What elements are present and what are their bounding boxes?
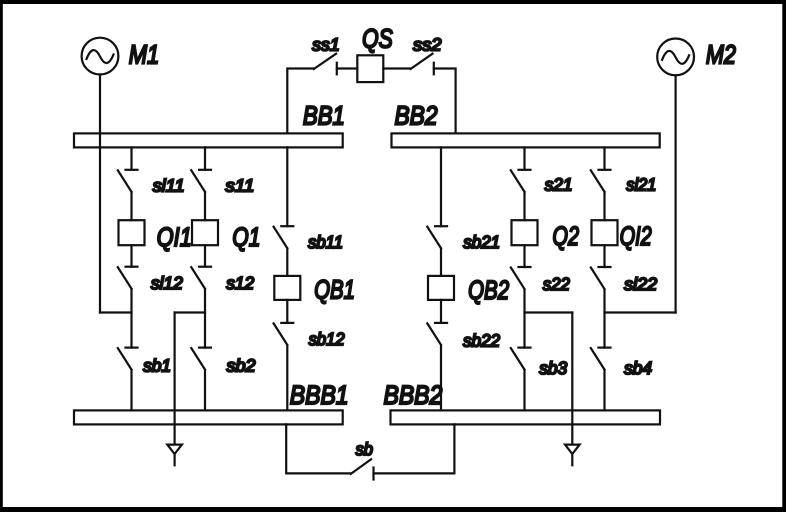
svg-text:sb3: sb3 bbox=[539, 358, 567, 378]
svg-text:sb: sb bbox=[356, 439, 374, 459]
switch si11 bbox=[118, 170, 138, 192]
busbar BBB2 bbox=[391, 410, 661, 424]
wire sb12 to BBB1 bbox=[286, 345, 288, 410]
svg-text:si21: si21 bbox=[626, 175, 656, 195]
switch sb21 bbox=[427, 226, 447, 248]
breaker Q1 bbox=[192, 220, 218, 245]
breaker QB2 bbox=[428, 276, 454, 300]
wire QB2 to sb22 bbox=[440, 300, 442, 323]
busbar BB1 bbox=[74, 133, 343, 147]
wire si11 to QI1 bbox=[130, 192, 132, 220]
wire sb21 to QB2 bbox=[440, 249, 442, 276]
switch sb3 bbox=[511, 348, 531, 370]
breaker QI2 bbox=[592, 220, 618, 245]
svg-text:QI1: QI1 bbox=[157, 222, 192, 252]
wire ss2 right drop bbox=[434, 69, 456, 134]
svg-text:sb1: sb1 bbox=[143, 356, 171, 376]
wire BB1 tap col si11 bbox=[130, 147, 132, 169]
wire s21 to Q2 bbox=[523, 192, 525, 220]
switch sb11 bbox=[274, 226, 294, 248]
svg-text:ss1: ss1 bbox=[312, 35, 340, 55]
switch sb bbox=[351, 459, 374, 479]
busbar BBB1 bbox=[74, 410, 343, 424]
breaker QI1 bbox=[119, 220, 145, 245]
switch s12 bbox=[191, 267, 211, 289]
switch s21 bbox=[511, 170, 531, 192]
breaker Q2 bbox=[512, 220, 538, 245]
breaker QB1 bbox=[274, 276, 300, 300]
switch s22 bbox=[511, 267, 531, 289]
switch ss1 bbox=[314, 54, 358, 75]
svg-text:sb12: sb12 bbox=[309, 329, 345, 349]
svg-text:si12: si12 bbox=[151, 273, 183, 293]
ground left bbox=[167, 445, 182, 466]
wire QI1 to si12 bbox=[130, 245, 132, 267]
ground right bbox=[565, 445, 580, 466]
wire M1 down bbox=[99, 75, 101, 313]
svg-text:s21: s21 bbox=[545, 175, 573, 195]
switch ss2 bbox=[383, 54, 434, 75]
switch sb1 bbox=[118, 348, 138, 370]
wire si12 to sb1 bbox=[130, 289, 132, 347]
wire s11 to Q1 bbox=[204, 192, 206, 220]
wire M1 join bbox=[100, 311, 132, 313]
svg-text:QS: QS bbox=[362, 24, 393, 54]
svg-text:QB2: QB2 bbox=[468, 275, 509, 305]
generator M2 bbox=[657, 39, 694, 76]
wire Q2 to s22 bbox=[523, 245, 525, 267]
wire earth-right join bbox=[525, 311, 573, 313]
wire Q1 to s12 bbox=[204, 245, 206, 267]
svg-text:s22: s22 bbox=[543, 274, 570, 294]
wire earth-left down bbox=[174, 313, 176, 444]
svg-text:BB1: BB1 bbox=[303, 100, 345, 130]
svg-text:BB2: BB2 bbox=[395, 100, 438, 130]
switch sb12 bbox=[274, 323, 294, 345]
svg-text:M1: M1 bbox=[129, 40, 160, 70]
wire QI2 to si22 bbox=[603, 245, 605, 267]
wire sb jumper right bbox=[374, 424, 455, 473]
svg-text:sb2: sb2 bbox=[227, 356, 256, 376]
wire BB2 tap col sb21 bbox=[440, 147, 442, 226]
wire s22 to sb3 bbox=[523, 290, 525, 348]
switch si21 bbox=[591, 170, 611, 192]
wire QB1 to sb12 bbox=[286, 300, 288, 323]
busbar BB2 bbox=[392, 133, 660, 147]
wire BB1 tap col sb11 bbox=[286, 147, 288, 226]
svg-text:QB1: QB1 bbox=[314, 275, 355, 305]
wire M2 join bbox=[605, 311, 676, 313]
wire ss1 left drop bbox=[287, 69, 313, 134]
wire earth-right down bbox=[571, 313, 573, 444]
svg-text:ss2: ss2 bbox=[413, 35, 442, 55]
wire BB1 tap col s11 bbox=[204, 147, 206, 169]
generator M1 bbox=[82, 38, 119, 75]
wire sb jumper left bbox=[286, 424, 351, 473]
breaker QS bbox=[357, 55, 383, 82]
svg-text:Q1: Q1 bbox=[232, 222, 260, 252]
switch sb4 bbox=[591, 348, 611, 370]
svg-text:BBB2: BBB2 bbox=[384, 380, 443, 410]
svg-text:s11: s11 bbox=[225, 176, 254, 196]
wire sb11 to QB1 bbox=[286, 249, 288, 276]
svg-text:sb4: sb4 bbox=[624, 358, 652, 378]
switch sb22 bbox=[427, 323, 447, 345]
svg-text:s12: s12 bbox=[226, 273, 254, 293]
svg-text:sb22: sb22 bbox=[463, 331, 500, 351]
wire sb2 to BBB1 bbox=[204, 370, 206, 410]
wire M2 down bbox=[674, 75, 676, 312]
wire BB2 tap col si21 bbox=[603, 147, 605, 169]
switch si22 bbox=[591, 267, 611, 289]
switch sb2 bbox=[191, 348, 211, 370]
svg-text:QI2: QI2 bbox=[620, 221, 652, 251]
wire si22 to sb4 bbox=[603, 290, 605, 348]
svg-text:si11: si11 bbox=[153, 176, 185, 196]
wire sb22 to BBB2 bbox=[440, 345, 442, 410]
svg-text:sb21: sb21 bbox=[463, 232, 500, 252]
wire si21 to QI2 bbox=[603, 192, 605, 220]
wire s12 to sb2 bbox=[204, 289, 206, 347]
svg-text:sb11: sb11 bbox=[308, 232, 343, 252]
svg-text:Q2: Q2 bbox=[553, 221, 580, 251]
svg-text:M2: M2 bbox=[706, 40, 736, 70]
wire BB2 tap col s21 bbox=[523, 147, 525, 169]
wire earth-left join bbox=[175, 311, 205, 313]
svg-text:si22: si22 bbox=[624, 274, 657, 294]
switch s11 bbox=[191, 170, 211, 192]
svg-text:BBB1: BBB1 bbox=[290, 380, 349, 410]
wire sb3 to BBB2 bbox=[523, 370, 525, 410]
wire sb1 to BBB1 bbox=[130, 370, 132, 410]
wire sb4 to BBB2 bbox=[603, 370, 605, 410]
switch si12 bbox=[118, 267, 138, 289]
